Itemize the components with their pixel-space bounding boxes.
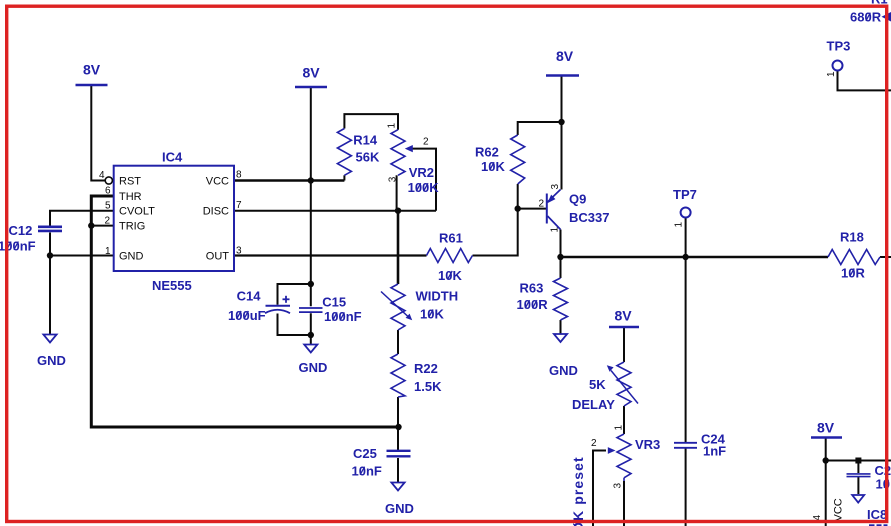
svg-text:C12: C12 bbox=[9, 223, 33, 238]
svg-text:2: 2 bbox=[423, 137, 429, 148]
svg-text:1: 1 bbox=[105, 246, 111, 257]
svg-text:R63: R63 bbox=[520, 281, 544, 296]
svg-text:R61: R61 bbox=[439, 230, 463, 245]
svg-text:8V: 8V bbox=[302, 65, 320, 81]
svg-text:NE555: NE555 bbox=[152, 278, 192, 293]
svg-text:VCC: VCC bbox=[833, 498, 845, 521]
svg-text:1: 1 bbox=[387, 123, 398, 129]
svg-text:8V: 8V bbox=[556, 48, 574, 64]
svg-text:1.5K: 1.5K bbox=[414, 379, 442, 394]
svg-text:TP7: TP7 bbox=[673, 187, 697, 202]
svg-text:1nF: 1nF bbox=[703, 443, 726, 458]
svg-text:C15: C15 bbox=[322, 295, 346, 310]
svg-text:680R: 680R bbox=[850, 10, 882, 25]
svg-text:IC8: IC8 bbox=[867, 507, 887, 522]
svg-text:VR3: VR3 bbox=[635, 437, 660, 452]
svg-text:10nF: 10nF bbox=[352, 464, 382, 479]
svg-text:ØK preset: ØK preset bbox=[570, 456, 586, 526]
svg-text:GND: GND bbox=[37, 353, 66, 368]
svg-text:WIDTH: WIDTH bbox=[416, 288, 459, 303]
svg-text:3: 3 bbox=[388, 176, 399, 182]
svg-text:DELAY: DELAY bbox=[572, 397, 615, 412]
svg-text:3: 3 bbox=[236, 246, 242, 257]
svg-text:THR: THR bbox=[119, 191, 142, 203]
svg-text:100nF: 100nF bbox=[324, 309, 362, 324]
svg-text:8V: 8V bbox=[817, 420, 835, 436]
svg-text:100uF: 100uF bbox=[228, 308, 266, 323]
svg-text:R18: R18 bbox=[840, 229, 864, 244]
svg-text:7: 7 bbox=[236, 200, 242, 211]
svg-text:8V: 8V bbox=[83, 62, 101, 78]
svg-text:10R: 10R bbox=[841, 265, 865, 280]
svg-text:Q9: Q9 bbox=[569, 191, 586, 206]
svg-text:56K: 56K bbox=[356, 150, 380, 165]
svg-text:GND: GND bbox=[549, 363, 578, 378]
svg-text:IC4: IC4 bbox=[162, 150, 183, 165]
svg-text:C14: C14 bbox=[237, 289, 262, 304]
svg-text:OUT: OUT bbox=[206, 251, 230, 263]
svg-text:R22: R22 bbox=[414, 361, 438, 376]
svg-text:2: 2 bbox=[591, 438, 597, 449]
svg-text:GND: GND bbox=[119, 251, 144, 263]
svg-text:8: 8 bbox=[236, 170, 242, 181]
svg-text:BC337: BC337 bbox=[569, 210, 609, 225]
svg-text:GND: GND bbox=[385, 501, 414, 516]
svg-text:CVOLT: CVOLT bbox=[119, 206, 155, 218]
svg-text:2: 2 bbox=[104, 216, 110, 227]
svg-text:GND: GND bbox=[299, 360, 328, 375]
svg-text:5K: 5K bbox=[589, 377, 606, 392]
svg-text:1: 1 bbox=[674, 222, 685, 228]
svg-text:1: 1 bbox=[550, 227, 561, 233]
svg-text:10K: 10K bbox=[481, 159, 505, 174]
svg-text:8V: 8V bbox=[614, 308, 632, 324]
svg-text:3: 3 bbox=[550, 184, 561, 190]
svg-text:TRIG: TRIG bbox=[119, 221, 145, 233]
svg-text:6: 6 bbox=[105, 186, 111, 197]
svg-text:VR2: VR2 bbox=[409, 165, 434, 180]
svg-text:RST: RST bbox=[119, 176, 141, 188]
svg-text:100R: 100R bbox=[517, 297, 549, 312]
svg-text:TP3: TP3 bbox=[827, 38, 851, 53]
svg-text:5: 5 bbox=[105, 201, 111, 212]
svg-text:2: 2 bbox=[538, 199, 544, 210]
svg-text:4: 4 bbox=[812, 515, 823, 521]
svg-text:100K: 100K bbox=[408, 180, 440, 195]
svg-text:R62: R62 bbox=[475, 144, 499, 159]
svg-text:4: 4 bbox=[99, 170, 105, 181]
svg-text:1: 1 bbox=[614, 425, 625, 431]
svg-text:R14: R14 bbox=[353, 133, 378, 148]
svg-text:C25: C25 bbox=[353, 446, 377, 461]
svg-text:10K: 10K bbox=[420, 306, 444, 321]
svg-text:DISC: DISC bbox=[203, 206, 229, 218]
svg-text:1: 1 bbox=[826, 71, 837, 77]
svg-text:VCC: VCC bbox=[206, 176, 229, 188]
svg-text:3: 3 bbox=[613, 483, 624, 489]
